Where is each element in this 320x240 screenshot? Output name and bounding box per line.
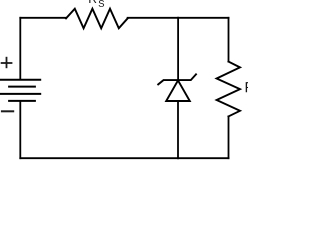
label RS (clipped at top edge, Liberation Sans outlines) — [89, 0, 104, 7]
label - (battery negative) — [1, 110, 14, 112]
label + (battery positive) — [1, 57, 13, 68]
zener diode D1 triangle (anode) — [166, 80, 190, 101]
resistor RS — [66, 9, 128, 29]
wire top-left segment — [20, 17, 66, 19]
wire zener bottom stub — [177, 101, 179, 158]
battery plate 4 short (-) — [8, 100, 36, 102]
wire zener top stub — [177, 18, 179, 79]
battery plate 1 long (+) — [0, 79, 41, 81]
battery plate 3 long (+) — [0, 93, 41, 95]
battery plate 2 short (-) — [8, 86, 36, 88]
label RL (clipped at right edge, Liberation Sans outline) — [246, 82, 255, 92]
wire top middle segment (RS to zener node) — [128, 17, 179, 19]
wire bottom segment right (zener node to corner) — [178, 157, 228, 159]
wire right vertical bottom (RL to corner) — [228, 116, 230, 158]
resistor RL — [217, 62, 240, 117]
wire bottom segment left (corner to zener node) — [20, 157, 178, 159]
wire right vertical top (corner to RL) — [228, 18, 230, 62]
wire left vertical (corner to battery +) — [19, 18, 21, 79]
zener diode D1 cathode bar with bent ends — [158, 74, 196, 84]
node top junction / wire top-right segment — [178, 17, 228, 19]
battery V1 — [0, 80, 41, 101]
wire left vertical bottom (battery - to corner) — [19, 101, 21, 158]
